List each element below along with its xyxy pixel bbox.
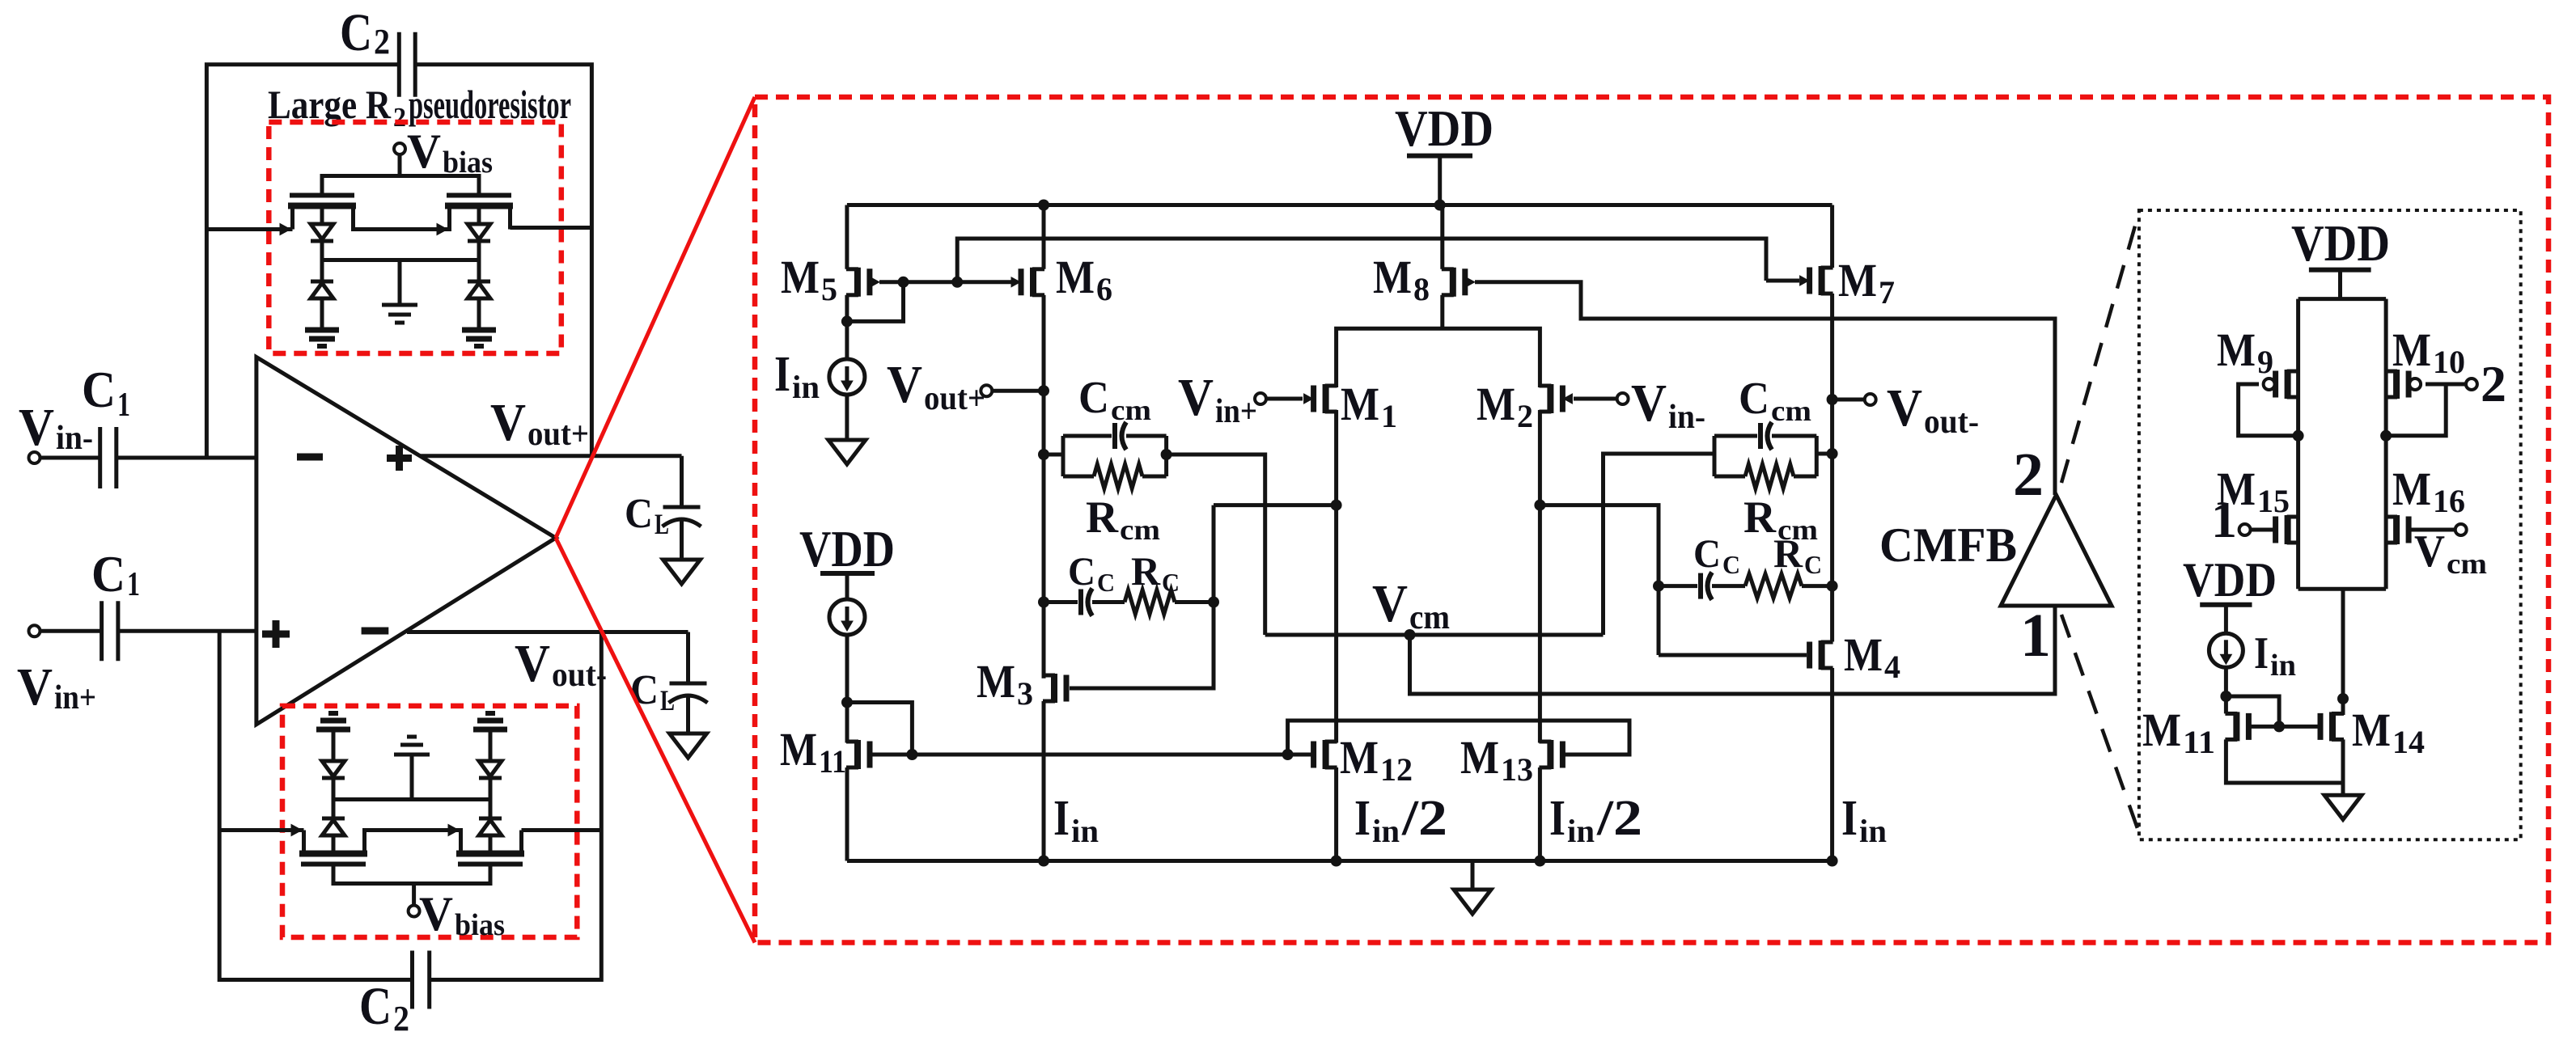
diode D3a	[322, 817, 345, 821]
wire left segment (bottom pseudo)	[219, 828, 303, 832]
diode D3a stem	[332, 835, 336, 854]
op-amp minus (top)	[297, 454, 323, 461]
svg-text:M: M	[780, 723, 817, 776]
transistor MP4 channel	[456, 851, 524, 857]
svg-text:15: 15	[2257, 483, 2290, 519]
wire M7 source	[1830, 205, 1834, 268]
svg-text:R: R	[1086, 493, 1119, 543]
resistor Rc (right)	[1745, 574, 1802, 598]
node M12 source / rail	[1331, 856, 1342, 867]
ground CL top	[663, 560, 701, 584]
node Cc right branch left	[1653, 581, 1664, 592]
callout dashed upper	[2061, 212, 2139, 483]
wire Iin to ground arrow	[845, 395, 849, 440]
wire Cc left	[1044, 600, 1078, 604]
svg-text:13: 13	[1501, 751, 1533, 788]
wire bottom rail	[847, 859, 1832, 863]
wire Vcm to CMFB input	[1410, 607, 2056, 694]
wire CL top to ground	[680, 520, 684, 560]
power VDD (main)	[1407, 154, 1472, 159]
wire C1 to op-amp	[117, 456, 256, 460]
terminal Vbias (bottom)	[409, 906, 420, 917]
ground CL bottom	[670, 733, 707, 758]
transistor M12	[1323, 740, 1329, 769]
svg-text:M: M	[2392, 463, 2431, 515]
svg-text:V: V	[2414, 526, 2445, 577]
node gate line tie	[906, 749, 917, 760]
wire M3 gate riser	[1070, 505, 1214, 688]
wire Vout- output	[407, 630, 688, 634]
wire M8 source	[1440, 205, 1444, 269]
capacitor CL (top)	[663, 505, 701, 509]
svg-text:R: R	[1743, 493, 1777, 543]
wire Ccm left connector	[1044, 453, 1063, 457]
wire Iin to M11	[845, 635, 849, 743]
svg-text:C: C	[1068, 548, 1095, 594]
wire Cc to Rc	[1092, 600, 1125, 604]
node Ccm right	[1161, 449, 1172, 460]
node bias rail tap	[951, 277, 963, 288]
wire bias rail	[957, 239, 1766, 282]
callout dashed lower	[2061, 615, 2139, 833]
svg-text:C: C	[359, 977, 392, 1036]
wire gate connect (top pseudo)	[322, 176, 479, 196]
resistor Rcm (right)	[1745, 464, 1794, 488]
transistor MP2 right terminal	[508, 206, 512, 230]
svg-text:12: 12	[1380, 751, 1413, 788]
wire Vout- terminal	[1832, 398, 1865, 402]
power VDD (left lower)	[820, 571, 875, 576]
svg-text:2: 2	[2481, 355, 2506, 412]
wire M11 source (detail)	[2226, 739, 2343, 783]
svg-text:1: 1	[1381, 398, 1397, 434]
svg-text:in: in	[1567, 813, 1595, 849]
svg-text:in: in	[792, 369, 820, 405]
svg-text:5: 5	[821, 271, 837, 307]
wire Ccm to Vcm drop	[1167, 454, 1265, 635]
diode D4a upper stem	[489, 800, 493, 819]
diode D4a	[479, 817, 502, 821]
wire middle segment (top pseudo)	[354, 228, 450, 230]
wire right segment (top pseudo)	[511, 228, 592, 230]
svg-text:C: C	[1078, 373, 1109, 423]
svg-text:R: R	[1773, 531, 1803, 576]
svg-text:V: V	[490, 393, 526, 452]
wire M6 drain	[1042, 295, 1046, 679]
wire Cc to Rc (right)	[1712, 584, 1745, 588]
wire ground stem (bottom pseudo)	[410, 755, 414, 800]
svg-text:V: V	[1178, 368, 1214, 427]
svg-text:VDD: VDD	[2291, 214, 2390, 272]
transistor MP1 channel	[288, 203, 356, 209]
node M6 drain / Cc	[1038, 597, 1049, 608]
svg-text:V: V	[419, 887, 453, 941]
svg-text:cm: cm	[2447, 547, 2487, 580]
svg-text:M: M	[2352, 704, 2391, 756]
svg-text:16: 16	[2433, 483, 2465, 519]
wire CL top stem	[680, 456, 684, 507]
input terminal Vin+	[29, 625, 40, 636]
wire M5 drain to Iin	[845, 321, 849, 359]
svg-text:C: C	[1739, 374, 1769, 424]
current source Iin (left lower)	[829, 599, 865, 635]
transistor MP4 gate bar	[458, 862, 523, 867]
transistor M13	[1547, 740, 1553, 769]
wire M11-M14 gate line	[2249, 725, 2321, 729]
op-amp plus (bottom)	[262, 631, 290, 638]
wire cascode tail	[2341, 589, 2345, 715]
wire gate connect (bottom pseudo)	[333, 865, 490, 884]
wire M10 drain tie	[2386, 384, 2446, 436]
terminal 2 (detail)	[2466, 378, 2477, 390]
svg-text:V: V	[1372, 574, 1408, 633]
svg-text:I: I	[1841, 791, 1858, 846]
wire Vin- to C1	[40, 456, 100, 460]
node top rail / M8	[1434, 200, 1446, 211]
svg-text:V: V	[1631, 374, 1667, 433]
bulk ground (right)	[462, 328, 496, 333]
svg-text:C: C	[1162, 568, 1180, 597]
svg-text:M: M	[1460, 731, 1499, 784]
transistor M14	[2329, 712, 2336, 741]
svg-text:1: 1	[127, 566, 140, 603]
diode D4b stem	[489, 778, 493, 800]
wire Iin to M11 (detail)	[2224, 667, 2228, 713]
node Vcm	[1405, 629, 1416, 640]
wire left segment (top pseudo)	[206, 227, 292, 231]
capacitor CL (bottom)	[670, 682, 707, 686]
transistor MP2 channel	[445, 203, 513, 209]
node M3 source / rail	[1038, 856, 1049, 867]
wire Vout+ to M6 drain	[992, 389, 1044, 393]
svg-text:M: M	[1373, 251, 1412, 303]
diode D1a	[311, 224, 333, 239]
node M9 drain tie	[2293, 430, 2304, 442]
svg-text:C: C	[630, 667, 659, 713]
diode D4b upper stem	[489, 730, 493, 761]
transistor MP1 right terminal	[351, 206, 355, 228]
transistor MP3 gate bar	[301, 862, 366, 867]
wire M5 gate tie	[847, 282, 904, 322]
svg-text:11: 11	[2183, 724, 2215, 760]
transistor M11 (detail)	[2233, 712, 2239, 741]
wire Vbias stem (bottom)	[412, 884, 416, 906]
svg-text:2: 2	[393, 999, 409, 1038]
wire M4 source	[1830, 668, 1834, 861]
svg-text:M: M	[977, 655, 1015, 708]
node top rail / M6	[1038, 200, 1049, 211]
op-amp CMFB	[2001, 495, 2112, 606]
wire feedback box top-left edge	[206, 65, 399, 458]
svg-text:I: I	[1053, 791, 1070, 846]
wire M6 source	[1042, 205, 1046, 269]
terminal Vin- (OTA)	[1617, 393, 1629, 404]
wire M3 gate tap to M1 drain	[1214, 503, 1337, 507]
arrow on left wire	[280, 224, 290, 235]
transistor MP1 gate bar	[290, 193, 354, 198]
svg-text:in: in	[1071, 813, 1099, 849]
wire Ccm top branch	[1063, 434, 1112, 438]
svg-text:11: 11	[819, 743, 846, 780]
wire Rc right	[1175, 600, 1214, 604]
svg-text:M: M	[1056, 251, 1095, 303]
svg-text:in+: in+	[1215, 393, 1257, 430]
wire CL bottom to ground	[686, 696, 690, 733]
wire Rcm right bottom branch	[1714, 475, 1745, 479]
bulk ground (bottom left)	[316, 727, 350, 733]
wire upper bus (bottom pseudo)	[333, 797, 490, 801]
op-amp A1	[256, 357, 556, 725]
svg-text:cm: cm	[1111, 394, 1151, 426]
svg-text:in-: in-	[56, 420, 93, 457]
svg-text:2: 2	[1517, 398, 1533, 434]
current source Iin (top left)	[829, 359, 865, 395]
wire M4 gate	[1659, 653, 1807, 657]
wire Cc right	[1659, 584, 1697, 588]
transistor M11	[854, 740, 861, 769]
terminal Vin+ (OTA)	[1255, 393, 1266, 404]
wire M13 source	[1538, 767, 1542, 861]
ground (top pseudo)	[382, 303, 417, 307]
transistor MP3 right terminal	[362, 832, 366, 854]
wire M5-M6 gate	[879, 280, 1012, 284]
svg-text:M: M	[1340, 731, 1379, 784]
wire M11 gate tie (detail)	[2226, 696, 2279, 726]
svg-text:M: M	[1844, 628, 1883, 681]
wire Ccm right top branch b	[1772, 434, 1816, 438]
svg-text:2: 2	[393, 103, 406, 133]
node M1 drain tap	[1331, 500, 1342, 511]
transistor MP1 left terminal	[290, 206, 294, 230]
wire Rcm right bottom branch b	[1794, 475, 1816, 479]
ground (OTA)	[1454, 890, 1491, 914]
transistor MP4 left terminal	[459, 832, 463, 854]
node gate line M13 loop	[1282, 749, 1294, 760]
capacitor C1 (bottom)	[100, 601, 104, 661]
diode D1b lower stem	[320, 298, 324, 329]
terminal Vcm ref (detail)	[2455, 524, 2467, 535]
svg-text:in: in	[1372, 813, 1400, 849]
wire M2 drain	[1538, 410, 1542, 743]
wire M10 gate to 2	[2426, 383, 2466, 387]
bulk ground (bottom right)	[473, 727, 507, 733]
svg-text:1: 1	[2211, 491, 2237, 548]
capacitor Cc (right)	[1698, 573, 1703, 599]
node Vout+	[1038, 385, 1049, 396]
resistor Rc (left)	[1125, 590, 1175, 615]
wire M4 gate tap	[1540, 505, 1659, 655]
callout line lower	[556, 538, 755, 942]
node M5 gate tie	[898, 277, 909, 288]
svg-text:V: V	[515, 634, 550, 693]
svg-text:C: C	[340, 3, 372, 62]
diode D2b lower stem	[477, 298, 481, 329]
diode D2b	[468, 280, 490, 284]
svg-text:14: 14	[2392, 724, 2425, 760]
svg-text:I: I	[1354, 791, 1371, 846]
transistor M16	[2393, 515, 2400, 544]
svg-text:in-: in-	[1668, 399, 1705, 436]
wire Ccm right top branch	[1714, 434, 1757, 438]
diode D2a stem	[477, 206, 481, 225]
transistor MP3 left terminal	[302, 831, 306, 854]
node M10 drain tie	[2380, 430, 2392, 442]
svg-text:L: L	[655, 508, 669, 540]
svg-text:I: I	[1549, 791, 1566, 846]
wire feedback box bottom-right edge	[430, 632, 602, 980]
terminal Vout+	[981, 385, 992, 396]
svg-text:3: 3	[1017, 675, 1033, 712]
node M2 drain tap	[1534, 500, 1545, 511]
wire M8 gate to CMFB	[1475, 282, 2055, 495]
transistor M1	[1323, 384, 1329, 413]
svg-text:V: V	[407, 125, 441, 178]
CMFB detail box (black dotted)	[2139, 210, 2521, 839]
svg-text:L: L	[660, 684, 675, 717]
diode D3a upper stem	[332, 800, 336, 819]
wire gate line M11-M12	[871, 753, 1315, 757]
diode D3b upper stem	[332, 730, 336, 761]
node Vout-	[1827, 394, 1838, 405]
svg-text:M: M	[1477, 378, 1515, 430]
terminal 1 (detail)	[2239, 524, 2251, 535]
diode D1a stem	[320, 206, 324, 225]
wire C1 to op-amp	[118, 629, 256, 633]
transistor MP2 gate bar	[447, 193, 511, 198]
wire M9 gate tie	[2239, 384, 2298, 436]
wire feedback box top-right edge	[415, 65, 591, 456]
svg-text:6: 6	[1096, 271, 1112, 307]
arrow on middle wire (bottom)	[448, 825, 459, 836]
svg-text:M: M	[781, 251, 820, 303]
svg-text:M: M	[2142, 704, 2181, 756]
node M5 drain	[841, 315, 853, 327]
svg-text:bias: bias	[455, 908, 505, 942]
op-amp plus (top)	[387, 454, 412, 462]
svg-text:out-: out-	[552, 657, 607, 694]
node M11 drain	[841, 697, 853, 708]
Ccm-Rcm network frame (right)	[1713, 436, 1717, 476]
svg-text:/2: /2	[1401, 791, 1447, 846]
input terminal Vin-	[29, 452, 40, 463]
wire M15 gate	[2250, 528, 2275, 532]
wire M1 drain	[1334, 410, 1338, 743]
transistor MP2 left terminal	[447, 206, 451, 228]
wire Rc right b	[1802, 584, 1832, 588]
wire Vin+ to C1	[40, 629, 102, 633]
wire VDD top rail	[847, 203, 1832, 207]
capacitor C2 (bottom)	[410, 951, 414, 1009]
svg-text:I: I	[774, 347, 790, 402]
wire lower bus (top pseudo)	[322, 258, 479, 262]
svg-text:2: 2	[2013, 441, 2044, 509]
node Rc / M3 gate	[1208, 597, 1219, 608]
bulk ground (left)	[305, 328, 339, 333]
transistor M9	[2285, 370, 2291, 399]
current source Iin (detail)	[2209, 633, 2243, 667]
wire M11 source	[845, 767, 849, 861]
svg-text:2: 2	[374, 22, 390, 61]
diode D2a	[468, 224, 490, 239]
diode D3b stem	[332, 778, 336, 800]
svg-text:C: C	[1804, 550, 1822, 579]
transistor M6	[1030, 268, 1036, 297]
transistor M8	[1450, 268, 1456, 297]
svg-text:V: V	[17, 657, 53, 717]
wire middle segment (bottom pseudo)	[365, 831, 461, 832]
Ccm-Rcm network frame (left)	[1061, 436, 1066, 476]
transistor M7	[1819, 266, 1825, 295]
wire Vbias stem	[398, 154, 402, 176]
transistor MP3 channel	[299, 851, 367, 857]
node Rc / M7 drain	[1827, 581, 1838, 592]
svg-text:/2: /2	[1596, 791, 1642, 846]
terminal Vbias (top)	[394, 143, 405, 154]
wire ground stem (OTA)	[1471, 861, 1475, 890]
ground (bottom pseudo)	[394, 753, 430, 757]
svg-text:cm: cm	[1120, 514, 1160, 546]
diode D1a lower stem	[320, 241, 324, 260]
transistor M4	[1819, 640, 1825, 670]
svg-text:8: 8	[1413, 271, 1430, 307]
op-amp minus (bottom)	[362, 628, 389, 635]
arrow on middle wire	[437, 224, 447, 235]
svg-text:C: C	[1097, 568, 1115, 597]
svg-text:10: 10	[2433, 344, 2465, 380]
ground (detail)	[2324, 795, 2362, 819]
wire CL bottom stem	[686, 632, 690, 684]
wire Vcm	[1265, 633, 1604, 637]
wire M16 gate	[2409, 528, 2455, 532]
wire Vin+ to M1 gate	[1266, 397, 1303, 401]
wire M7 gate	[1766, 279, 1799, 283]
OTA box (red dashed)	[755, 97, 2548, 943]
power VDD (detail lower)	[2200, 602, 2252, 607]
wire Vin- to M2 gate	[1574, 397, 1617, 401]
power VDD (detail top)	[2309, 268, 2371, 273]
wire Ccm right to Vcm drop	[1604, 454, 1715, 635]
arrow on left wire (bottom)	[291, 825, 302, 836]
diode D1b	[311, 280, 333, 284]
svg-text:9: 9	[2257, 344, 2273, 380]
diode D3b	[322, 761, 345, 776]
capacitor Cc (left)	[1078, 590, 1083, 615]
svg-text:in+: in+	[54, 679, 96, 717]
diode D1b stem	[320, 260, 324, 282]
wire Vout+ output	[420, 454, 682, 458]
svg-text:in: in	[1859, 813, 1887, 849]
node M13 source / rail	[1534, 856, 1545, 867]
svg-text:out+: out+	[924, 380, 985, 417]
diode D2b stem	[477, 260, 481, 282]
svg-text:V: V	[1887, 378, 1922, 438]
wire Rcm bottom branch right	[1142, 475, 1167, 479]
svg-text:4: 4	[1884, 649, 1900, 685]
wire M3 source	[1042, 701, 1046, 861]
transistor M15	[2285, 515, 2291, 544]
svg-text:M: M	[2217, 323, 2256, 376]
diode D4b	[479, 761, 502, 776]
diode D4a stem	[489, 835, 493, 854]
svg-text:V: V	[19, 398, 54, 457]
svg-text:1: 1	[117, 387, 130, 424]
wire right segment (bottom pseudo)	[522, 828, 602, 832]
svg-text:I: I	[2254, 628, 2269, 679]
wire tail bar	[1337, 328, 1540, 387]
wire Rcm bottom branch	[1063, 475, 1094, 479]
svg-text:out-: out-	[1924, 404, 1979, 441]
svg-text:M: M	[1838, 254, 1877, 307]
